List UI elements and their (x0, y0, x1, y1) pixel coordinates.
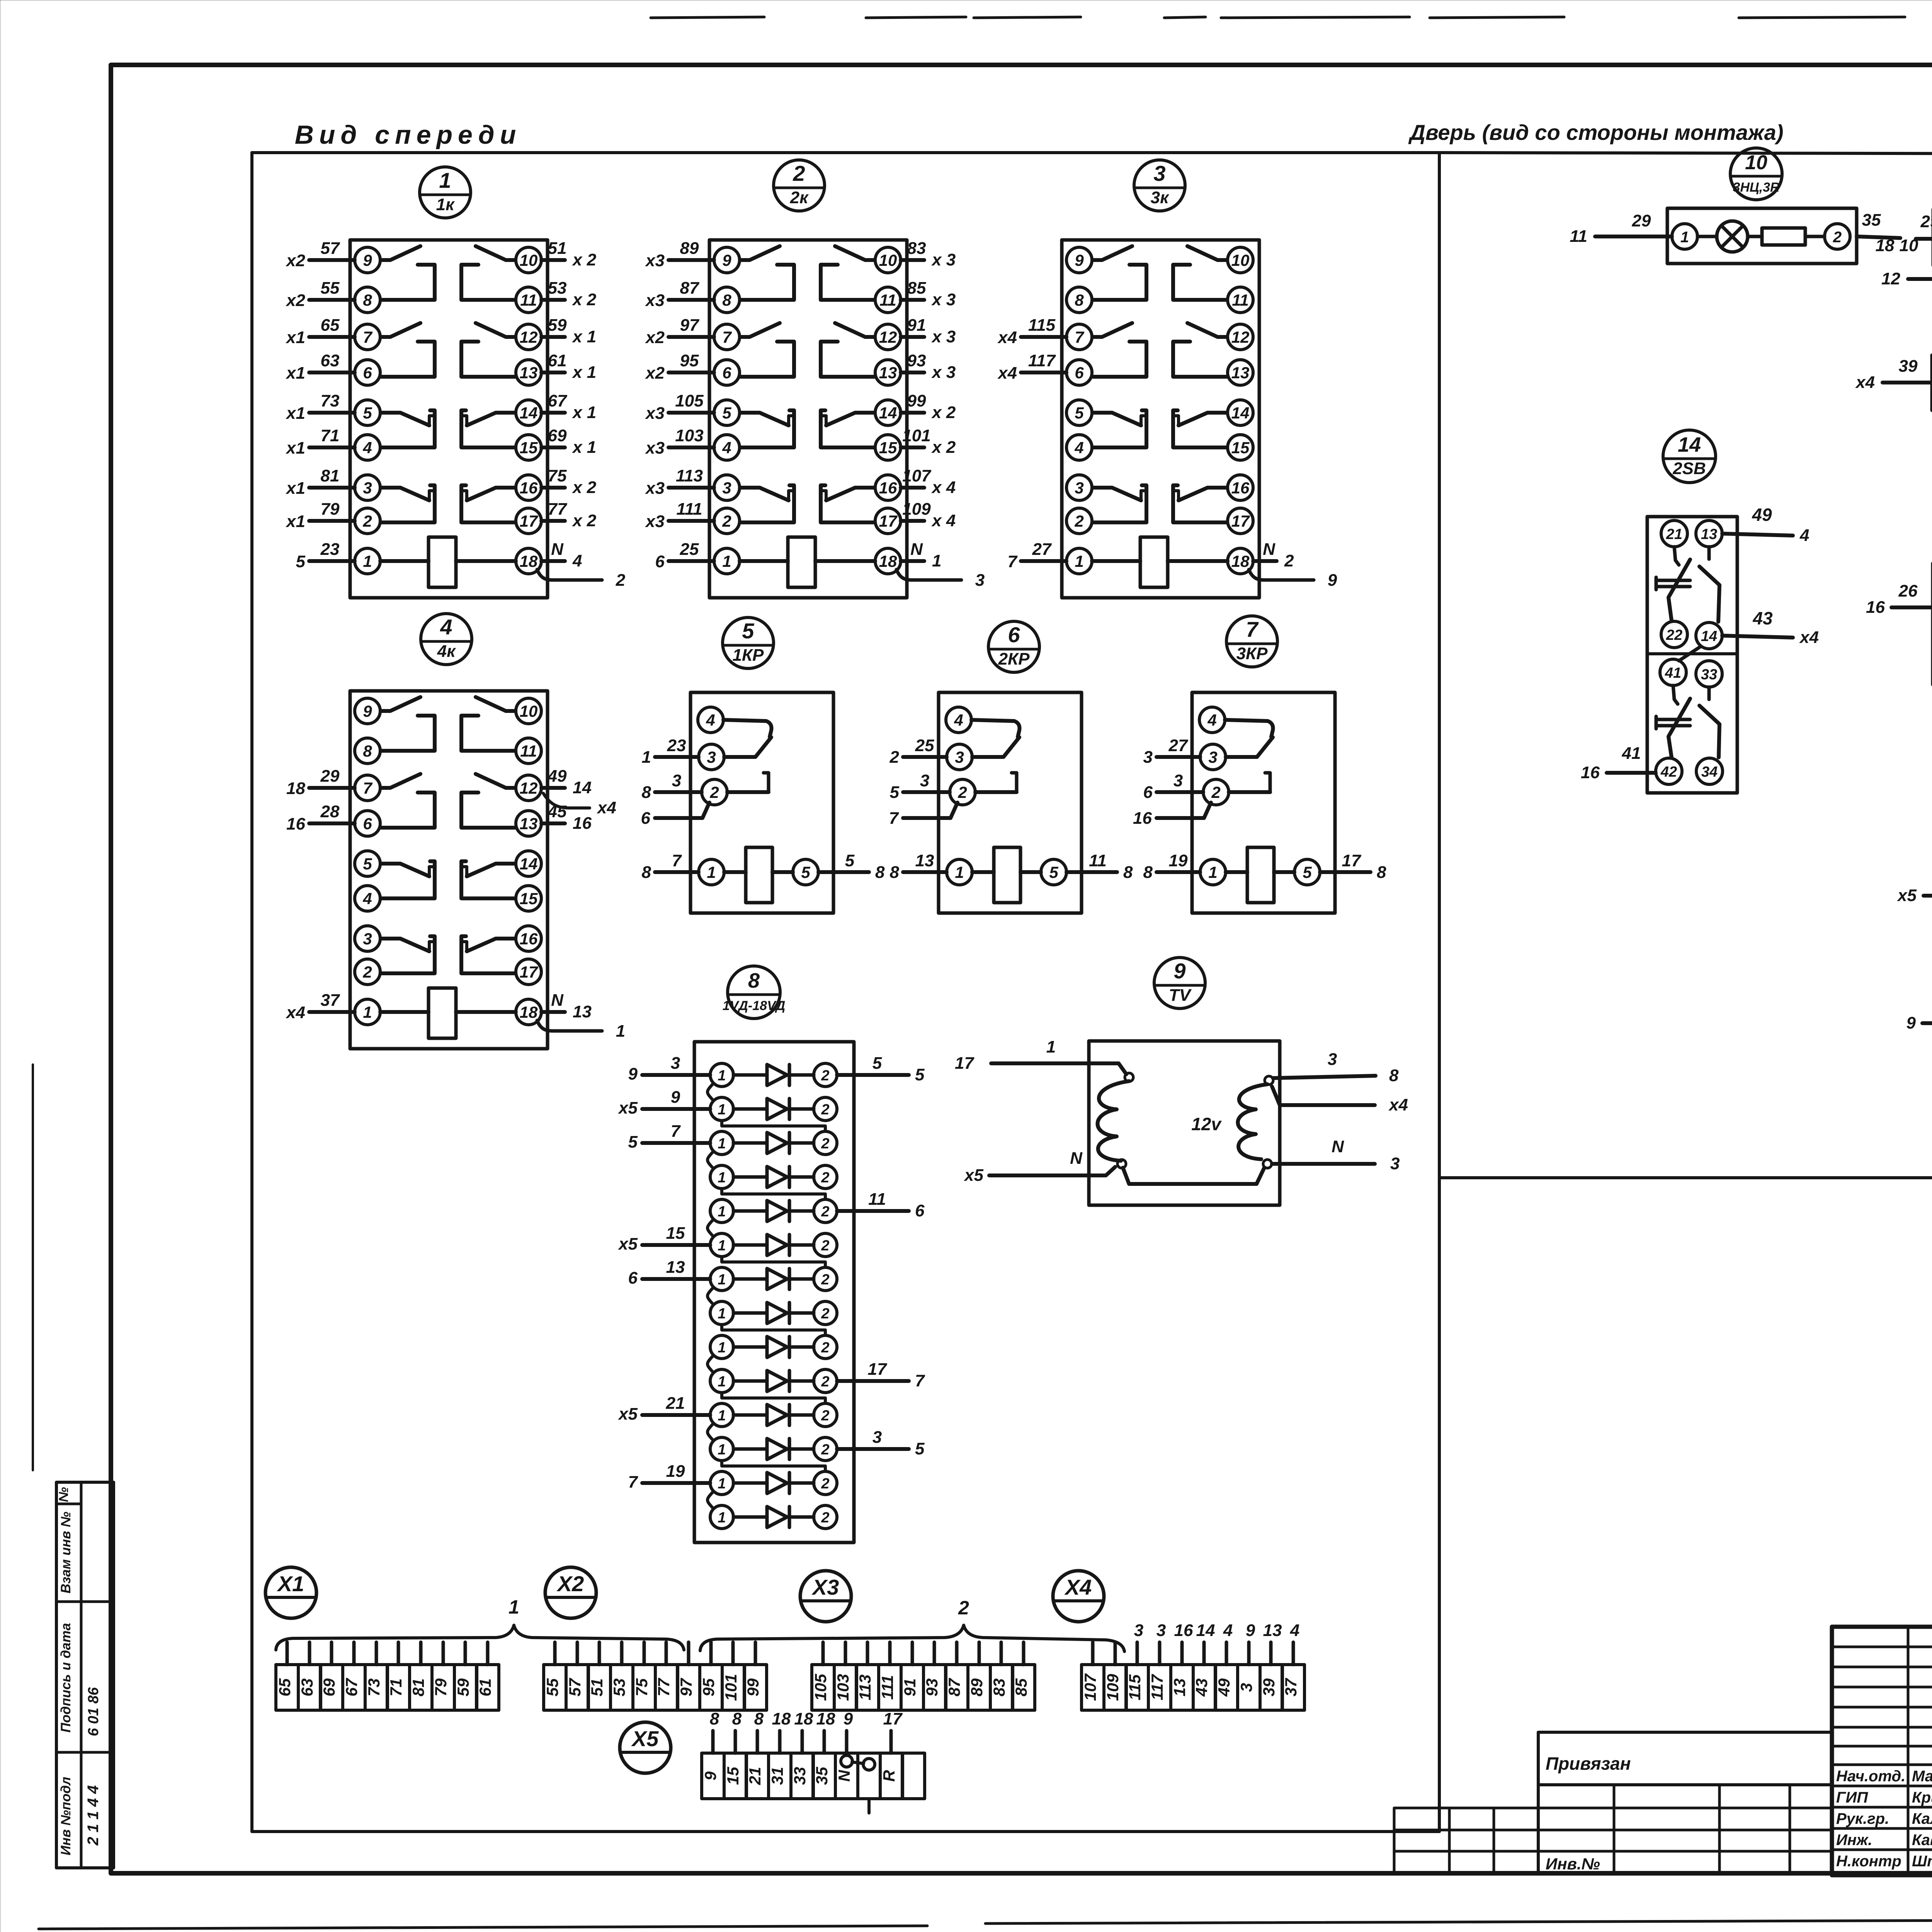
relay 2K left wire 89 (645, 239, 714, 270)
node label 5/1КР (723, 617, 774, 668)
svg-text:7: 7 (889, 809, 900, 828)
svg-text:65: 65 (321, 316, 340, 335)
transformer TV secondary winding (1238, 1084, 1268, 1159)
svg-text:x2: x2 (645, 328, 665, 347)
svg-text:2: 2 (1211, 783, 1220, 801)
svg-text:x 2: x 2 (572, 511, 597, 530)
svg-text:1: 1 (642, 748, 651, 767)
svg-text:1: 1 (439, 168, 451, 192)
svg-text:16: 16 (286, 815, 305, 833)
2SB NO blade (1699, 706, 1719, 757)
relay 3K left wire 27 (1008, 540, 1066, 571)
svg-text:17: 17 (520, 512, 538, 530)
svg-text:103: 103 (834, 1674, 852, 1701)
svg-text:18: 18 (1231, 552, 1250, 570)
svg-text:1к: 1к (436, 195, 455, 214)
relay 2K right wire 107 (901, 466, 956, 497)
svg-text:83: 83 (907, 239, 926, 258)
relay 2K left wire 97 (645, 316, 714, 347)
svg-text:29: 29 (320, 767, 340, 786)
svg-text:41: 41 (1665, 665, 1681, 681)
transformer TV primary winding (1098, 1081, 1129, 1161)
svg-text:6: 6 (722, 364, 731, 382)
svg-text:x1: x1 (286, 479, 305, 498)
node label 7/3КР (1226, 616, 1277, 667)
transformer TV body (1089, 1041, 1280, 1205)
svg-text:14: 14 (879, 404, 897, 422)
svg-text:26: 26 (1898, 582, 1918, 600)
wire 26 into 1SA (1866, 582, 1932, 617)
svg-text:1: 1 (707, 863, 716, 881)
relay 1K NO contact right (476, 323, 515, 337)
relay 1K left wire 23 (296, 540, 355, 571)
relay 2K pin18 tail wire (896, 570, 961, 580)
relay 2K right wire 93 (901, 351, 956, 382)
sheet bottom edge line (39, 1917, 1932, 1929)
svg-text:Каврова: Каврова (1912, 1832, 1932, 1849)
svg-text:43: 43 (1752, 608, 1773, 628)
svg-text:18: 18 (816, 1709, 835, 1728)
svg-text:x 1: x 1 (572, 363, 596, 382)
relay 2KP wire 25 (889, 736, 947, 767)
svg-text:14: 14 (1701, 628, 1717, 645)
svg-text:3: 3 (707, 748, 716, 766)
svg-text:5: 5 (1075, 404, 1084, 422)
terminal strip X4 (1081, 1621, 1304, 1710)
svg-text:99: 99 (744, 1678, 762, 1696)
relay 1K left wire 81 (286, 466, 355, 498)
svg-text:1: 1 (718, 1136, 726, 1152)
diode VD8 (710, 1301, 837, 1325)
front view box (Вид спереди) (252, 151, 1439, 154)
diode block right wire 11 (837, 1190, 925, 1220)
relay 3K left wire 115 (997, 316, 1066, 347)
svg-text:17: 17 (520, 963, 538, 981)
diode VD4 (710, 1165, 837, 1189)
relay 3KP contact (1225, 720, 1273, 737)
svg-text:12: 12 (520, 328, 538, 346)
svg-text:13: 13 (666, 1258, 685, 1277)
svg-text:Н.контр: Н.контр (1836, 1853, 1901, 1870)
svg-text:x 1: x 1 (572, 327, 596, 346)
relay 2K body (709, 240, 985, 598)
svg-text:8: 8 (1143, 863, 1153, 882)
svg-text:13: 13 (1231, 364, 1250, 382)
svg-text:7: 7 (671, 1122, 681, 1141)
svg-text:107: 107 (902, 466, 932, 485)
relay 2K right wire 91 (901, 316, 956, 346)
wire 29 into lamp 11 (1900, 212, 1932, 255)
svg-text:2: 2 (821, 1238, 829, 1254)
svg-text:8: 8 (1075, 291, 1084, 309)
svg-text:Вид спереди: Вид спереди (295, 120, 522, 150)
svg-text:7: 7 (363, 779, 372, 797)
relay 4K NC contact left (381, 864, 429, 876)
svg-text:14: 14 (1196, 1621, 1215, 1640)
svg-text:9: 9 (1328, 571, 1337, 590)
svg-text:4: 4 (1223, 1621, 1233, 1640)
resistor 3HL (1762, 228, 1805, 245)
svg-text:39: 39 (1260, 1678, 1278, 1696)
svg-text:12: 12 (520, 779, 538, 797)
svg-text:9: 9 (671, 1088, 680, 1107)
svg-text:27: 27 (1168, 736, 1189, 755)
signature rows text (1836, 1768, 1932, 1870)
svg-text:11: 11 (1570, 227, 1587, 246)
lamp unit 3HL body (1667, 208, 1857, 264)
relay 1K NO contact right (476, 246, 515, 260)
svg-text:13: 13 (879, 364, 897, 382)
svg-text:9: 9 (363, 702, 372, 720)
svg-text:4: 4 (572, 551, 582, 570)
svg-text:X2: X2 (556, 1571, 584, 1596)
svg-text:8: 8 (642, 783, 651, 802)
svg-text:95: 95 (680, 351, 699, 370)
svg-text:87: 87 (680, 279, 700, 298)
relay 1K NO contact left (381, 323, 420, 337)
svg-text:69: 69 (548, 426, 567, 445)
svg-text:23: 23 (667, 736, 686, 755)
svg-text:x3: x3 (645, 404, 665, 423)
svg-text:1: 1 (718, 1510, 726, 1526)
svg-text:1: 1 (718, 1204, 726, 1220)
relay 1K left wire 71 (286, 426, 355, 457)
svg-text:5: 5 (742, 619, 754, 643)
svg-text:105: 105 (811, 1673, 830, 1701)
svg-text:2: 2 (821, 1408, 829, 1424)
relay 4K body (350, 691, 625, 1049)
wire 41 into 2SB (1581, 744, 1656, 782)
svg-text:10: 10 (520, 251, 538, 269)
svg-text:23: 23 (320, 540, 340, 559)
svg-text:6: 6 (1143, 783, 1153, 802)
svg-text:10: 10 (879, 251, 897, 269)
svg-text:Штрайхер: Штрайхер (1912, 1853, 1932, 1870)
svg-text:97: 97 (677, 1678, 695, 1696)
svg-text:2: 2 (362, 963, 372, 981)
svg-text:7: 7 (1246, 617, 1259, 641)
relay 3K NC contact right (1179, 413, 1227, 425)
svg-text:X1: X1 (277, 1571, 304, 1596)
svg-text:13: 13 (520, 364, 538, 382)
diode VD13 (710, 1471, 837, 1495)
svg-text:2: 2 (821, 1102, 829, 1118)
relay 3KP wire 27 (1143, 736, 1200, 767)
svg-text:1: 1 (1208, 863, 1217, 881)
svg-text:8: 8 (1123, 863, 1133, 882)
diode block left wire 21 (618, 1394, 710, 1423)
svg-text:x 4: x 4 (931, 511, 956, 530)
relay 1K right wire 67 (541, 391, 596, 422)
svg-text:3: 3 (722, 479, 731, 497)
diode VD2 (710, 1097, 837, 1121)
svg-text:15: 15 (520, 889, 538, 908)
svg-text:9: 9 (628, 1065, 638, 1083)
relay 2K NO contact left (740, 246, 780, 260)
svg-text:4: 4 (1290, 1621, 1299, 1640)
svg-text:3: 3 (872, 1428, 882, 1447)
svg-text:1: 1 (363, 1003, 372, 1021)
push button 2SB body (1647, 517, 1737, 793)
svg-text:12v: 12v (1191, 1114, 1222, 1134)
relay 2K right wire N (901, 540, 941, 570)
attachment table left (1394, 1808, 1538, 1873)
svg-text:x1: x1 (286, 512, 305, 531)
svg-text:109: 109 (1104, 1673, 1122, 1701)
relay 1K left wire 73 (286, 391, 355, 423)
svg-text:109: 109 (902, 500, 931, 519)
svg-text:79: 79 (432, 1678, 450, 1696)
svg-text:N: N (1263, 540, 1276, 559)
svg-text:13: 13 (1170, 1679, 1189, 1697)
svg-text:x5: x5 (618, 1235, 638, 1253)
svg-text:13: 13 (915, 851, 934, 870)
svg-text:2: 2 (821, 1510, 829, 1526)
relay 3K NC contact left (1093, 488, 1141, 500)
svg-text:9: 9 (1246, 1621, 1255, 1640)
2SB NC blade (1668, 560, 1690, 621)
svg-text:x5: x5 (964, 1166, 983, 1185)
svg-text:Инв.№: Инв.№ (1546, 1855, 1600, 1873)
svg-text:31: 31 (768, 1767, 786, 1785)
svg-text:73: 73 (365, 1679, 383, 1697)
svg-text:17: 17 (883, 1709, 903, 1728)
relay 3K NC contact left (1093, 413, 1141, 425)
svg-text:8: 8 (1389, 1066, 1399, 1085)
svg-text:111: 111 (677, 500, 702, 519)
svg-text:10: 10 (1231, 251, 1250, 269)
svg-text:91: 91 (907, 316, 926, 335)
svg-text:6: 6 (655, 552, 665, 571)
TV secondary wire 3 to terminal 8 (1273, 1050, 1399, 1085)
svg-text:21: 21 (1666, 526, 1682, 543)
svg-text:3: 3 (1328, 1050, 1337, 1069)
svg-text:7: 7 (363, 328, 372, 346)
svg-text:1КР: 1КР (733, 646, 764, 665)
relay 2K right wire 83 (901, 239, 956, 269)
wire 43 out of 2SB (1722, 608, 1819, 647)
svg-text:99: 99 (907, 391, 926, 410)
svg-text:5: 5 (628, 1133, 638, 1151)
relay 2K right wire 109 (901, 500, 956, 530)
diode VD7 (710, 1267, 837, 1291)
svg-text:3: 3 (1390, 1154, 1400, 1173)
svg-text:67: 67 (342, 1678, 361, 1696)
svg-text:93: 93 (923, 1679, 941, 1697)
relay 2K NC contact right (826, 488, 874, 500)
svg-text:105: 105 (675, 391, 704, 410)
node label 6/2КР (988, 621, 1039, 672)
svg-text:7: 7 (1075, 328, 1084, 346)
svg-text:5: 5 (363, 855, 372, 873)
relay 2KP contact (971, 720, 1019, 737)
svg-text:3: 3 (955, 748, 964, 766)
svg-text:x 2: x 2 (572, 250, 597, 269)
svg-text:1: 1 (718, 1068, 726, 1084)
svg-text:97: 97 (680, 316, 700, 335)
svg-text:103: 103 (675, 426, 703, 445)
svg-text:7: 7 (1008, 552, 1018, 571)
diode block left wire 19 (628, 1462, 710, 1492)
svg-text:3КР: 3КР (1236, 644, 1268, 663)
relay 2KP right wire 11 (1066, 851, 1133, 882)
svg-text:61: 61 (476, 1679, 494, 1697)
svg-text:3НЦ,3R: 3НЦ,3R (1733, 180, 1780, 195)
svg-text:113: 113 (676, 466, 703, 485)
wire 1 into SF (1906, 997, 1932, 1032)
svg-text:x1: x1 (286, 328, 305, 347)
svg-text:13: 13 (573, 1002, 592, 1021)
svg-text:1: 1 (718, 1238, 726, 1254)
svg-text:6: 6 (1008, 622, 1020, 647)
relay 3K NO contact left (1093, 323, 1132, 337)
svg-text:6 01 86: 6 01 86 (85, 1687, 102, 1736)
svg-text:X4: X4 (1064, 1575, 1092, 1599)
svg-text:12: 12 (1231, 328, 1250, 346)
svg-text:16: 16 (1174, 1621, 1193, 1640)
relay 1K NC contact left (381, 488, 429, 500)
svg-text:8: 8 (363, 742, 372, 760)
svg-text:21: 21 (746, 1767, 764, 1786)
terminal strip X1 (276, 1642, 499, 1710)
svg-text:9: 9 (363, 251, 372, 269)
relay 2KP slant wire 7 (889, 803, 957, 828)
relay 2K NO contact right (835, 246, 874, 260)
svg-text:14: 14 (520, 855, 538, 873)
relay 1KP slant wire 6 (641, 803, 709, 828)
svg-text:x 2: x 2 (572, 478, 597, 497)
svg-text:N: N (551, 540, 564, 559)
svg-text:18: 18 (286, 779, 305, 798)
svg-text:22: 22 (1666, 627, 1682, 643)
svg-text:№: № (56, 1487, 71, 1502)
svg-text:x5: x5 (1897, 886, 1917, 905)
svg-text:67: 67 (548, 391, 568, 410)
svg-text:2: 2 (957, 783, 967, 801)
relay 1KP wire 23 (642, 736, 699, 767)
svg-text:x1: x1 (286, 404, 305, 423)
relay 2K left wire 111 (645, 500, 714, 531)
node label 3/3к (1134, 160, 1185, 211)
relay 3K left wire 117 (997, 351, 1066, 383)
svg-text:3: 3 (1173, 771, 1183, 790)
terminal block label X5 (620, 1722, 671, 1773)
svg-text:4: 4 (1074, 439, 1083, 457)
svg-text:x4: x4 (286, 1003, 305, 1022)
svg-text:81: 81 (409, 1679, 427, 1697)
svg-text:6: 6 (363, 815, 372, 833)
relay 3K right wire N (1253, 540, 1294, 570)
svg-text:14: 14 (1678, 433, 1701, 456)
diode VD5 (710, 1199, 837, 1223)
svg-text:55: 55 (543, 1678, 561, 1696)
svg-text:8: 8 (748, 969, 760, 992)
svg-text:x 2: x 2 (931, 403, 956, 422)
svg-text:x3: x3 (645, 251, 665, 270)
svg-text:8: 8 (754, 1709, 764, 1728)
inventory side column (56, 1482, 114, 1868)
svg-text:1: 1 (1046, 1037, 1056, 1056)
diode VD11 (710, 1403, 837, 1427)
node label 9/TV (1154, 957, 1205, 1009)
svg-text:69: 69 (320, 1678, 338, 1696)
node label 4/4к (421, 614, 472, 665)
2SB NC blade (1668, 699, 1690, 757)
svg-text:8: 8 (722, 291, 731, 309)
svg-text:2: 2 (821, 1340, 829, 1356)
svg-text:3: 3 (671, 1054, 680, 1073)
svg-text:3: 3 (1075, 479, 1083, 497)
svg-text:85: 85 (1012, 1678, 1030, 1696)
svg-text:7: 7 (915, 1371, 925, 1390)
svg-text:x2: x2 (286, 251, 305, 270)
relay 3KP body (1192, 692, 1335, 913)
relay 3K pin18 tail wire (1249, 570, 1314, 580)
diode VD14 (710, 1505, 837, 1529)
svg-text:x3: x3 (645, 291, 665, 310)
svg-text:117: 117 (1028, 351, 1056, 370)
svg-text:3: 3 (975, 571, 985, 590)
svg-text:2: 2 (821, 1136, 829, 1152)
svg-text:x 2: x 2 (572, 290, 597, 309)
relay 2KP coil (994, 847, 1020, 903)
svg-text:77: 77 (548, 500, 568, 519)
relay 2K left wire 95 (645, 351, 714, 383)
svg-text:x3: x3 (645, 439, 665, 457)
relay 2KP wire 3 (890, 771, 950, 802)
svg-text:14: 14 (1231, 404, 1250, 422)
svg-text:5: 5 (801, 863, 810, 881)
svg-text:18: 18 (794, 1709, 813, 1728)
svg-text:115: 115 (1126, 1674, 1144, 1701)
svg-text:1: 1 (616, 1022, 625, 1041)
svg-text:4к: 4к (437, 642, 456, 661)
relay 1K left wire 63 (286, 351, 355, 383)
svg-text:75: 75 (548, 466, 567, 485)
svg-text:63: 63 (321, 351, 340, 370)
svg-text:34: 34 (1701, 764, 1718, 780)
svg-text:16: 16 (573, 814, 592, 833)
svg-text:13: 13 (1263, 1621, 1282, 1640)
diode block right wire 5 (837, 1054, 925, 1084)
relay 2K left wire 87 (645, 279, 714, 310)
svg-text:13: 13 (520, 815, 538, 833)
svg-text:3: 3 (1156, 1621, 1166, 1640)
svg-text:111: 111 (878, 1675, 896, 1700)
relay 1K right wire 69 (541, 426, 596, 457)
svg-text:8: 8 (875, 863, 885, 882)
svg-text:49: 49 (1215, 1678, 1233, 1697)
svg-text:11: 11 (879, 291, 896, 309)
svg-text:15: 15 (1231, 439, 1250, 457)
relay 1K NC contact right (467, 413, 515, 425)
relay 2K right wire 85 (901, 279, 956, 309)
svg-text:11: 11 (1089, 851, 1107, 870)
relay 2K left wire 113 (645, 466, 714, 498)
svg-text:7: 7 (628, 1473, 639, 1492)
svg-text:1VД-18VД: 1VД-18VД (723, 998, 786, 1013)
svg-text:x1: x1 (286, 364, 305, 383)
cable brace 2 (700, 1597, 1124, 1651)
svg-text:2: 2 (821, 1204, 829, 1220)
wire A into SF (1897, 871, 1932, 905)
svg-text:15: 15 (520, 439, 538, 457)
node label 1/1к (420, 167, 471, 218)
svg-text:1: 1 (955, 863, 964, 881)
relay 4K NO contact left (381, 774, 420, 788)
svg-text:18: 18 (772, 1709, 791, 1728)
relay 1K left wire 79 (286, 500, 355, 531)
